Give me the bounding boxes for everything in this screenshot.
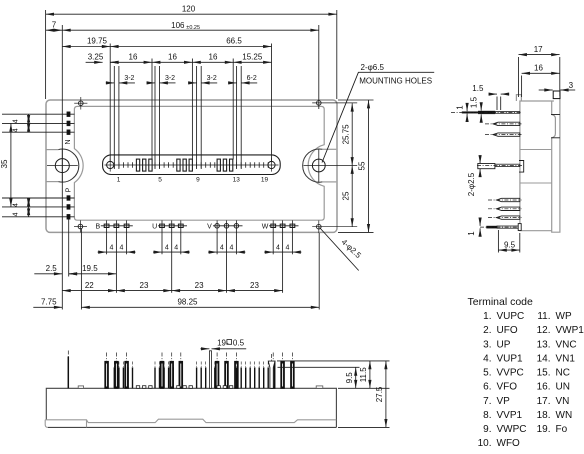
svg-text:9.5: 9.5 xyxy=(345,372,354,384)
svg-text:4: 4 xyxy=(13,203,20,207)
dim 15.25 xyxy=(233,61,271,63)
svg-text:16.: 16. xyxy=(537,382,551,393)
svg-text:4: 4 xyxy=(276,244,280,251)
svg-text:VUPC: VUPC xyxy=(497,311,525,322)
svg-text:106: 106 xyxy=(171,21,185,30)
strip pin ticks xyxy=(114,162,268,167)
strip left circle pin xyxy=(107,161,114,168)
dim 7 xyxy=(46,29,63,31)
svg-text:UFO: UFO xyxy=(497,325,518,336)
svg-text:3-2: 3-2 xyxy=(165,75,175,82)
svg-text:15.: 15. xyxy=(537,368,551,379)
corner screw hole bottom-left xyxy=(78,224,83,229)
top view: case outline with mounting notches xyxy=(74,106,324,220)
svg-text:VWPC: VWPC xyxy=(497,424,527,435)
svg-text:16: 16 xyxy=(209,53,218,62)
svg-text:1.5: 1.5 xyxy=(472,84,484,93)
svg-text:9.: 9. xyxy=(483,424,491,435)
control pin strip xyxy=(103,155,281,175)
dim 4-dia2.5 leader xyxy=(320,228,359,271)
side view baseplate xyxy=(552,98,560,233)
svg-text:17.: 17. xyxy=(537,396,551,407)
dim 1.5 horizontal xyxy=(489,93,498,95)
svg-text:6.: 6. xyxy=(483,382,491,393)
bottom terminals group U xyxy=(158,225,187,227)
svg-text:VUP1: VUP1 xyxy=(497,353,524,364)
label 19-sq0.5 with width dim xyxy=(200,348,209,350)
front view control pins 19-sq0.5 xyxy=(113,367,115,388)
svg-text:13: 13 xyxy=(233,177,241,184)
svg-text:15.25: 15.25 xyxy=(242,53,263,62)
svg-text:WP: WP xyxy=(556,311,572,322)
dim 98.25 xyxy=(81,306,319,308)
svg-text:19.: 19. xyxy=(537,424,551,435)
svg-text:W: W xyxy=(262,223,269,230)
side dims extension lines xyxy=(518,57,520,97)
svg-text:2-φ2.5: 2-φ2.5 xyxy=(467,172,476,196)
dim 66.5 xyxy=(110,46,271,48)
svg-text:13.: 13. xyxy=(537,339,551,350)
dim 9.5 side xyxy=(498,249,519,251)
svg-text:19.75: 19.75 xyxy=(87,37,108,46)
svg-text:V: V xyxy=(207,223,212,230)
bottom extension lines xyxy=(68,220,70,277)
dim 25 xyxy=(351,166,353,227)
svg-text:120: 120 xyxy=(182,5,196,14)
dim 4 4 top-left xyxy=(28,114,30,123)
front view flared pin 19 xyxy=(268,361,275,388)
svg-text:VWP1: VWP1 xyxy=(556,325,584,336)
svg-text:23: 23 xyxy=(250,281,259,290)
svg-text:7: 7 xyxy=(52,21,57,30)
dim 2-dia6.5 mounting holes leader xyxy=(322,72,434,162)
svg-text:19.5: 19.5 xyxy=(82,264,98,273)
svg-text:4: 4 xyxy=(174,244,178,251)
svg-text:27.5: 27.5 xyxy=(375,386,384,402)
dims 23 x3 xyxy=(116,290,171,292)
dim 22 xyxy=(62,290,116,292)
front view slot bumps xyxy=(136,386,139,389)
extension lines top xyxy=(45,10,47,99)
side view top-left notch xyxy=(516,95,521,101)
svg-text:5.: 5. xyxy=(483,368,491,379)
side view case internal lines xyxy=(520,149,552,151)
dim 35 xyxy=(10,123,12,206)
svg-text:25: 25 xyxy=(341,191,350,200)
svg-text:8.: 8. xyxy=(483,410,491,421)
dim 27.5 xyxy=(385,361,387,428)
svg-text:3-2: 3-2 xyxy=(207,75,217,82)
dims 4 4 bottom terminals xyxy=(98,251,107,253)
corner screw hole top-left xyxy=(79,101,84,106)
left mounting boss ring xyxy=(58,149,79,182)
top view: module baseplate outline xyxy=(46,100,337,232)
dim 25.75 xyxy=(351,103,353,165)
svg-text:0.5: 0.5 xyxy=(233,338,245,347)
side pin row1 long pin xyxy=(462,112,478,114)
svg-text:9: 9 xyxy=(196,177,200,184)
svg-text:4: 4 xyxy=(286,244,290,251)
strip slots xyxy=(136,159,139,171)
strip centerline xyxy=(105,164,279,166)
svg-text:14.: 14. xyxy=(537,353,551,364)
right mounting hole xyxy=(312,159,325,172)
svg-text:NC: NC xyxy=(556,368,570,379)
left side pins N group xyxy=(2,113,74,115)
svg-text:12.: 12. xyxy=(537,325,551,336)
svg-text:11.: 11. xyxy=(537,311,550,322)
svg-text:11.5: 11.5 xyxy=(359,367,368,383)
svg-text:1: 1 xyxy=(456,105,465,110)
extension pairs 3-2 / 6-2 xyxy=(113,66,115,169)
svg-text:98.25: 98.25 xyxy=(177,298,198,307)
bottom terminals group W xyxy=(269,225,299,227)
svg-text:16: 16 xyxy=(168,53,177,62)
svg-text:UP: UP xyxy=(497,339,511,350)
svg-text:3.: 3. xyxy=(483,339,491,350)
svg-text:9.5: 9.5 xyxy=(504,240,516,249)
svg-text:10.: 10. xyxy=(478,438,492,449)
svg-text:66.5: 66.5 xyxy=(226,37,242,46)
svg-text:N: N xyxy=(65,139,72,144)
side pin row 2-3 short pins xyxy=(493,122,520,125)
svg-text:2.: 2. xyxy=(483,325,491,336)
svg-text:4: 4 xyxy=(120,244,124,251)
svg-text:25.75: 25.75 xyxy=(341,124,350,145)
svg-text:7.75: 7.75 xyxy=(41,298,57,307)
svg-text:4.: 4. xyxy=(483,353,491,364)
corner screw hole bottom-right xyxy=(317,224,322,229)
dim 1 vertical bottom xyxy=(479,218,481,226)
dim 9.5 front xyxy=(355,367,357,388)
dim 55 xyxy=(368,100,370,232)
svg-text:MOUNTING HOLES: MOUNTING HOLES xyxy=(359,77,432,86)
svg-text:4: 4 xyxy=(220,244,224,251)
svg-text:55: 55 xyxy=(358,161,367,170)
svg-text:1: 1 xyxy=(117,177,121,184)
side middle pin 2-dia2.5 xyxy=(478,164,495,169)
svg-text:VN: VN xyxy=(556,396,570,407)
dim 1.5 vertical xyxy=(480,103,482,111)
svg-text:19: 19 xyxy=(261,177,269,184)
svg-text:1.: 1. xyxy=(483,311,491,322)
dim 2-dia2.5 xyxy=(479,156,481,164)
svg-text:2.5: 2.5 xyxy=(46,264,58,273)
svg-text:5: 5 xyxy=(158,177,162,184)
svg-text:3-2: 3-2 xyxy=(124,75,134,82)
front view bottom profile with feet xyxy=(46,419,336,422)
front view body xyxy=(46,388,336,427)
dim 19.5 xyxy=(69,273,117,275)
svg-text:VN1: VN1 xyxy=(556,353,576,364)
svg-text:WFO: WFO xyxy=(497,438,521,449)
dim 7.75 xyxy=(33,306,62,308)
svg-text:4: 4 xyxy=(110,244,114,251)
svg-text:Terminal code: Terminal code xyxy=(468,296,534,308)
svg-text:1: 1 xyxy=(467,231,476,236)
dim 3 xyxy=(539,89,553,91)
dim 3.25 xyxy=(86,61,103,63)
dim 120 xyxy=(46,13,337,15)
svg-text:18.: 18. xyxy=(537,410,551,421)
dim 16 x3 xyxy=(110,61,152,63)
svg-text:4: 4 xyxy=(13,119,20,123)
front view raised reference pin xyxy=(209,351,211,389)
right extension lines xyxy=(338,99,374,101)
dim 1 vertical top xyxy=(466,103,468,111)
svg-text:35: 35 xyxy=(0,159,9,168)
svg-text:4: 4 xyxy=(13,128,20,132)
side bottom long pin xyxy=(487,226,498,228)
svg-text:±0.25: ±0.25 xyxy=(186,25,200,31)
front view left pin xyxy=(67,357,69,389)
front view power pins xyxy=(105,361,109,388)
right mounting boss ring xyxy=(303,149,323,182)
svg-text:Fo: Fo xyxy=(556,424,568,435)
svg-text:2-φ6.5: 2-φ6.5 xyxy=(361,63,385,72)
svg-text:6-2: 6-2 xyxy=(247,75,257,82)
svg-text:17: 17 xyxy=(534,45,543,54)
dim 16 side xyxy=(522,72,560,74)
svg-text:4: 4 xyxy=(13,212,20,216)
svg-text:WN: WN xyxy=(556,410,573,421)
dim 19.75 xyxy=(62,46,110,48)
bottom terminals group B xyxy=(101,225,133,227)
corner screw hole top-right xyxy=(317,101,322,106)
svg-text:7.: 7. xyxy=(483,396,491,407)
front view corner bosses xyxy=(78,386,83,388)
left mounting hole xyxy=(55,159,69,173)
strip right circle pin xyxy=(268,161,275,168)
svg-text:23: 23 xyxy=(195,281,204,290)
side view mounting boss notch xyxy=(552,115,556,138)
dim 4 4 bottom-left xyxy=(28,198,30,207)
svg-text:23: 23 xyxy=(140,281,149,290)
svg-text:4: 4 xyxy=(229,244,233,251)
side view top mounting tab xyxy=(553,91,560,99)
dims 3-2 / 6-2 xyxy=(106,82,115,84)
svg-text:VFO: VFO xyxy=(497,382,518,393)
dim 106 +-0.25 xyxy=(62,29,319,31)
svg-text:VNC: VNC xyxy=(556,339,577,350)
svg-text:16: 16 xyxy=(129,53,138,62)
svg-text:3: 3 xyxy=(569,81,574,90)
svg-text:B: B xyxy=(95,223,100,230)
svg-text:VP: VP xyxy=(497,396,511,407)
svg-text:U: U xyxy=(152,223,157,230)
svg-text:UN: UN xyxy=(556,382,570,393)
svg-text:4: 4 xyxy=(165,244,169,251)
svg-text:22: 22 xyxy=(85,281,94,290)
svg-text:3.25: 3.25 xyxy=(88,53,104,62)
side view case outline xyxy=(520,101,554,231)
svg-text:1.5: 1.5 xyxy=(469,96,478,108)
left side pins P group xyxy=(2,197,74,199)
svg-text:P: P xyxy=(66,187,73,192)
dim 11.5 xyxy=(369,361,371,388)
svg-text:VVPC: VVPC xyxy=(497,368,524,379)
side bottom short pins xyxy=(497,198,520,201)
dim 17 xyxy=(519,54,560,56)
dim 2.5 xyxy=(34,273,62,275)
svg-text:VVP1: VVP1 xyxy=(497,410,523,421)
svg-text:16: 16 xyxy=(534,64,543,73)
bottom terminals group V xyxy=(213,225,243,227)
front view extension lines right xyxy=(277,360,390,362)
